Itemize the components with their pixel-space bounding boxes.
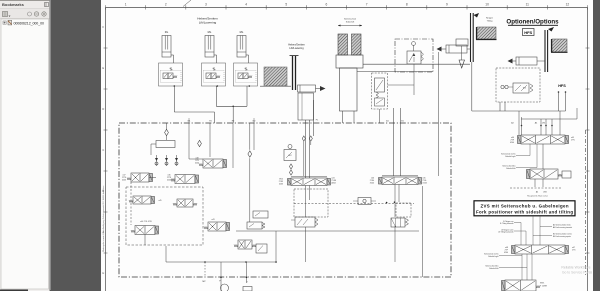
- svg-text:9: 9: [446, 3, 448, 7]
- svg-text:4203: 4203: [122, 179, 126, 181]
- svg-text:000606212_000_00: 000606212_000_00: [14, 21, 45, 25]
- svg-text:Go to Service Portal: Go to Service Portal: [562, 271, 593, 275]
- svg-text:ML: ML: [240, 30, 244, 34]
- svg-text:Seitenschub: Seitenschub: [344, 18, 357, 21]
- svg-text:T: T: [246, 282, 248, 284]
- svg-text:M1: M1: [188, 121, 192, 123]
- svg-text:Sideshift left: Sideshift left: [506, 167, 516, 170]
- svg-text:ZVS mit Seitenschub u. Gabelne: ZVS mit Seitenschub u. Gabelneigen: [481, 203, 569, 208]
- svg-text:A2: A2: [511, 122, 514, 125]
- svg-text:H2: H2: [232, 121, 235, 123]
- svg-text:T 12/9E: T 12/9E: [540, 286, 548, 288]
- svg-text:RL: RL: [165, 30, 169, 34]
- svg-text:P1: P1: [316, 120, 319, 122]
- svg-text:A4 Forks moving towards: A4 Forks moving towards: [553, 226, 572, 229]
- svg-text:5: 5: [285, 3, 287, 7]
- svg-text:MP: MP: [202, 281, 206, 283]
- svg-text:WV1: WV1: [540, 283, 545, 285]
- svg-text:Fork positioner with sideshift: Fork positioner with sideshift and tilti…: [476, 210, 573, 215]
- svg-text:2M: 2M: [542, 123, 545, 125]
- svg-text:A1: A1: [386, 120, 389, 123]
- svg-text:Lift/Lowering: Lift/Lowering: [289, 47, 304, 50]
- svg-text:M2: M2: [253, 121, 257, 123]
- svg-text:8: 8: [406, 3, 408, 7]
- svg-text:Sideshift left: Sideshift left: [489, 267, 499, 270]
- svg-text:H1: H1: [209, 121, 212, 123]
- svg-text:Sideshift right: Sideshift right: [488, 255, 499, 258]
- svg-text:Hauptventil, Main valve: Hauptventil, Main valve: [527, 195, 549, 198]
- svg-text:e43: e43: [212, 219, 215, 221]
- svg-text:ML: ML: [208, 30, 212, 34]
- svg-text:Optionen/Options: Optionen/Options: [506, 19, 559, 26]
- svg-text:X240: X240: [370, 182, 374, 184]
- svg-text:4260: 4260: [504, 252, 508, 254]
- svg-text:HFS: HFS: [524, 30, 532, 35]
- svg-text:4: 4: [245, 3, 247, 7]
- svg-text:12: 12: [566, 3, 570, 7]
- svg-text:A262: A262: [332, 181, 336, 184]
- svg-text:11: 11: [526, 3, 530, 7]
- svg-text:HFS: HFS: [558, 84, 566, 88]
- svg-text:1: 1: [125, 3, 127, 7]
- svg-text:2: 2: [165, 3, 167, 7]
- svg-text:X234: X234: [423, 182, 427, 184]
- svg-text:B: Tilting forwards: B: Tilting forwards: [500, 222, 514, 225]
- svg-text:7: 7: [366, 3, 368, 7]
- svg-text:A4: A4: [535, 122, 538, 125]
- svg-text:6: 6: [326, 3, 328, 7]
- svg-text:e45: e45: [159, 200, 162, 202]
- svg-text:Bookmarks: Bookmarks: [2, 2, 25, 7]
- svg-text:Sideshift: Sideshift: [346, 21, 355, 24]
- svg-text:A4: A4: [536, 191, 538, 194]
- svg-text:E: E: [102, 66, 104, 70]
- svg-text:2YS: 2YS: [572, 249, 576, 251]
- svg-text:4240: 4240: [510, 142, 514, 144]
- svg-text:e44 2YK 4270: e44 2YK 4270: [140, 221, 151, 223]
- svg-text:Sideshift right: Sideshift right: [505, 155, 516, 158]
- svg-text:10: 10: [485, 3, 489, 7]
- svg-text:Weitergabe sowie Vervielfaelti: Weitergabe sowie Vervielfaeltigung Schut…: [102, 185, 105, 252]
- svg-text:C: C: [102, 148, 104, 152]
- svg-text:3: 3: [205, 3, 207, 7]
- svg-text:B1: B1: [401, 121, 404, 123]
- svg-text:Neigen: Neigen: [486, 18, 494, 20]
- svg-text:D: D: [102, 107, 104, 111]
- svg-text:4204: 4204: [167, 179, 171, 181]
- svg-text:4200: 4200: [195, 162, 199, 164]
- svg-text:2M2: 2M2: [543, 192, 547, 194]
- svg-text:B4 Forks moving aparts: B4 Forks moving aparts: [553, 235, 571, 238]
- svg-text:Lift/Lowering: Lift/Lowering: [199, 20, 217, 24]
- svg-text:4263: 4263: [279, 183, 283, 185]
- svg-text:2YN: 2YN: [571, 139, 575, 141]
- svg-text:Tilting: Tilting: [487, 20, 494, 23]
- svg-text:Reliable WorkStore: Reliable WorkStore: [561, 266, 590, 270]
- svg-text:F: F: [103, 25, 105, 29]
- svg-text:WV: WV: [523, 88, 527, 90]
- svg-text:A: Tilting backwards: A: Tilting backwards: [498, 231, 513, 234]
- svg-text:H: H: [102, 271, 104, 275]
